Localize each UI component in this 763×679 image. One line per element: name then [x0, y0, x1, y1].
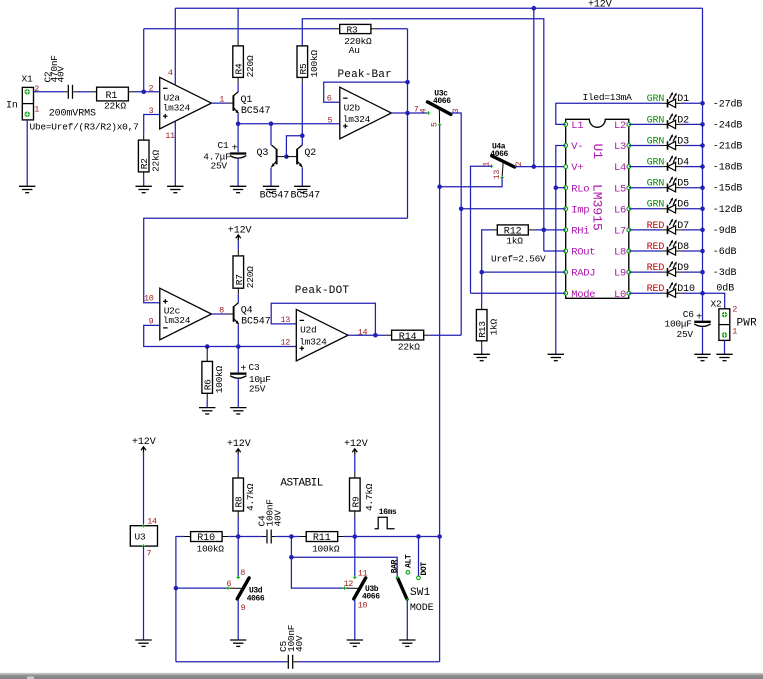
U1 left pin circles	[564, 123, 568, 296]
Q4 pin number 8	[219, 306, 224, 316]
D3 color label GRN	[647, 136, 665, 147]
scrollbar strip	[0, 673, 763, 679]
svg-text:LM3915: LM3915	[589, 184, 604, 231]
wire supply to R8	[237, 455, 239, 472]
svg-text:Iled=13mA: Iled=13mA	[583, 92, 633, 103]
svg-text:Peak-DOT: Peak-DOT	[295, 285, 350, 297]
svg-text:L5: L5	[614, 183, 626, 195]
svg-text:U1: U1	[590, 144, 605, 160]
connector X2	[711, 299, 730, 341]
wire C4 to R11	[275, 536, 300, 538]
capacitor C1 (polarized)	[218, 140, 247, 158]
svg-text:1: 1	[34, 105, 39, 115]
wire Q1 emitter down	[237, 114, 239, 124]
node D5 anode	[700, 185, 705, 190]
node Q1 emitter / C1	[236, 121, 241, 126]
U3 pin 7 pad	[142, 544, 145, 547]
svg-text:25V: 25V	[677, 329, 694, 340]
X1 pin number 2	[34, 84, 39, 94]
svg-text:lm324: lm324	[163, 102, 191, 113]
X2 pad 2	[722, 312, 727, 317]
R8 value 4.7kΩ (rotated)	[245, 483, 256, 511]
node control/U4a ctl junction	[437, 184, 442, 189]
svg-text:-6dB: -6dB	[713, 246, 737, 258]
svg-text:10: 10	[358, 601, 368, 611]
R7 value 220Ω (rotated)	[245, 266, 256, 288]
node Q2 collector / R5	[300, 133, 305, 138]
C3 value 10µF	[249, 374, 271, 385]
wire U2a pin11 to ground	[174, 121, 176, 186]
svg-text:0dB: 0dB	[716, 282, 734, 294]
IC U1 LM3915 body	[566, 119, 629, 298]
switch U3d 4066	[228, 578, 265, 604]
svg-text:RHi: RHi	[571, 226, 589, 238]
U3d pin number 9	[241, 603, 246, 613]
SW1 BAR pad	[396, 576, 399, 579]
svg-text:Ube=Uref/(R3/R2)x0,7: Ube=Uref/(R3/R2)x0,7	[30, 122, 139, 133]
svg-text:In: In	[6, 101, 18, 112]
R11 value 100kΩ	[312, 544, 340, 555]
R10 value 100kΩ	[197, 544, 225, 555]
wire supply to R7	[237, 241, 239, 250]
wire R14 to Imp column	[430, 334, 461, 336]
U3c pin number 3 (rotated)	[451, 108, 461, 113]
wire U3b pin11 from line A	[354, 537, 356, 578]
switch U4a 4066	[490, 142, 514, 177]
D9 name	[677, 263, 689, 274]
svg-text:40V: 40V	[273, 510, 284, 527]
U1 right pin circles	[627, 123, 631, 296]
capacitor C5	[285, 655, 297, 669]
svg-text:16ms: 16ms	[379, 508, 397, 517]
svg-text:lm324: lm324	[299, 337, 327, 348]
resistor R11	[300, 532, 344, 545]
svg-text:11: 11	[165, 131, 175, 141]
LED D6	[662, 197, 702, 213]
svg-text:220Ω: 220Ω	[245, 55, 256, 77]
svg-text:R8: R8	[234, 496, 245, 507]
wire C1 to ground	[237, 159, 239, 187]
wire R9 to line A	[354, 517, 356, 537]
label Iled=13mA	[583, 92, 633, 103]
wire L6 to D6	[629, 208, 663, 210]
svg-text:1: 1	[219, 95, 224, 105]
svg-text:12: 12	[281, 337, 291, 347]
ground under SW1	[399, 640, 415, 646]
svg-text:4066: 4066	[247, 595, 265, 604]
wire +12V top rail	[175, 7, 702, 9]
resistor R1	[91, 87, 135, 102]
D3 level label -21dB	[713, 141, 743, 153]
resistor R3	[334, 24, 377, 35]
C2 value labels (rotated)	[43, 55, 67, 83]
wire R8 to line A	[237, 517, 239, 537]
SW1 label ALT (rotated)	[405, 554, 414, 568]
wire D10 row to X2	[703, 293, 725, 309]
resistor R7 (vertical)	[233, 250, 245, 294]
svg-text:+: +	[232, 144, 238, 155]
wire RHi line	[534, 229, 565, 231]
wire U4a input from Mode line	[471, 166, 492, 293]
svg-text:BC547: BC547	[291, 191, 321, 202]
node junction at R1/U2a/R3	[141, 90, 146, 95]
node RLo ground junction	[554, 185, 559, 190]
label Ube=Uref/(R3/R2)x0,7	[30, 122, 139, 133]
resistor R13 (vertical)	[476, 303, 488, 346]
transistor Q1	[227, 92, 270, 117]
svg-text:100kΩ: 100kΩ	[197, 544, 225, 555]
svg-text:PWR: PWR	[737, 317, 758, 329]
svg-text:2: 2	[149, 83, 154, 93]
svg-text:13: 13	[281, 315, 291, 325]
node D10 anode	[700, 291, 705, 296]
wire supply to U3 pin14	[143, 453, 145, 526]
U2d pin number 14	[358, 327, 368, 337]
svg-text:D10: D10	[677, 284, 695, 295]
resistor R2 (vertical)	[138, 134, 150, 178]
svg-text:BAR: BAR	[390, 559, 399, 573]
R5 value 100kΩ (rotated)	[309, 50, 320, 78]
U3c pin number 4 (rotated)	[418, 108, 428, 113]
svg-text:-18dB: -18dB	[713, 162, 743, 174]
svg-text:D7: D7	[677, 221, 689, 232]
wire U4a output to V+	[515, 166, 566, 168]
resistor R10	[185, 532, 229, 545]
svg-text:GRN: GRN	[647, 158, 665, 169]
svg-text:40V: 40V	[56, 66, 67, 83]
svg-text:-21dB: -21dB	[713, 141, 743, 153]
svg-text:25V: 25V	[249, 383, 266, 394]
wire C1 top	[237, 124, 239, 153]
supply arrow R7	[236, 235, 241, 241]
label Uref=2.56V	[491, 254, 546, 265]
transistor Q3 (mirrored)	[257, 145, 287, 167]
U1 pin name ROut	[571, 247, 595, 259]
svg-text:+12V: +12V	[227, 439, 251, 450]
svg-text:2: 2	[732, 304, 737, 314]
wire R5 down to Q2 collector	[301, 83, 303, 145]
D1 name	[677, 94, 689, 105]
label 16ms pulse	[379, 508, 397, 517]
C6 value 100µF	[665, 319, 693, 330]
Q1 pin number 1	[219, 95, 224, 105]
node RADJ junction	[479, 270, 484, 275]
U2a pin number 2	[149, 83, 154, 93]
C5 value labels (rotated)	[278, 624, 305, 652]
wire L8 to D8	[629, 250, 663, 252]
D8 name	[677, 242, 689, 253]
svg-text:12: 12	[344, 579, 354, 589]
op-amp U2a	[160, 77, 212, 129]
svg-text:SW1: SW1	[410, 587, 431, 599]
U1 pin name L8	[614, 247, 626, 259]
svg-text:D9: D9	[677, 263, 689, 274]
svg-text:RADJ: RADJ	[571, 268, 595, 280]
LED D5	[662, 176, 702, 192]
svg-text:L1: L1	[571, 120, 583, 132]
wire LED anode rail	[702, 8, 704, 293]
U3c control pad	[438, 123, 441, 126]
op-amp U2b	[340, 87, 392, 139]
node C4/R11/U3b junction	[289, 534, 294, 539]
svg-text:5: 5	[328, 116, 333, 126]
D6 level label -12dB	[713, 204, 743, 216]
svg-text:RED: RED	[647, 221, 665, 232]
R14 value 22kΩ	[398, 341, 420, 352]
svg-text:ASTABIL: ASTABIL	[280, 478, 322, 490]
LED D7	[662, 219, 702, 235]
svg-text:Uref=2.56V: Uref=2.56V	[491, 254, 546, 265]
wire feedback vertical to R3 line	[143, 29, 145, 92]
U1 pin name L7	[614, 226, 626, 238]
R12 value 1kΩ	[506, 236, 523, 247]
wire R3 left line	[144, 28, 334, 30]
D2 name	[677, 115, 689, 126]
node Q3/Q2 base tie	[284, 154, 289, 159]
U1 pin name L0	[614, 289, 626, 301]
ground under X2	[716, 354, 732, 360]
wire Q1 collector to R4	[237, 83, 239, 92]
ground under Q2	[294, 186, 310, 192]
svg-text:Q4: Q4	[241, 306, 253, 317]
SW1 label BAR (rotated)	[390, 559, 399, 573]
ground under Q3	[263, 186, 279, 192]
svg-text:D1: D1	[677, 94, 689, 105]
U1 pin name Imp	[571, 204, 589, 216]
svg-text:8: 8	[240, 568, 245, 578]
ground under X1	[19, 186, 35, 192]
supply arrow R8	[236, 449, 241, 455]
U1 pin name RADJ	[571, 268, 595, 280]
wire DOT pad drop	[418, 537, 420, 577]
wire L5 to D5	[629, 187, 663, 189]
wire Imp line	[461, 208, 566, 210]
svg-text:BC547: BC547	[241, 316, 271, 327]
node U3b pin12 line	[289, 555, 294, 560]
svg-text:22kΩ: 22kΩ	[398, 341, 420, 352]
R1 value 22kΩ	[104, 101, 126, 112]
R4 value 220Ω (rotated)	[245, 55, 256, 77]
svg-text:Mode: Mode	[571, 289, 595, 301]
svg-text:8: 8	[219, 306, 224, 316]
D2 color label GRN	[647, 115, 665, 126]
U4a pin number 1 (rotated)	[481, 162, 491, 167]
U2c pin number 10	[144, 293, 154, 303]
wire U2b pin6 feedback loop	[324, 82, 408, 102]
svg-text:4: 4	[418, 108, 428, 113]
D10 level label 0dB	[716, 282, 734, 294]
U4a input pad	[490, 165, 493, 168]
D9 level label -3dB	[713, 267, 737, 279]
svg-text:U2b: U2b	[344, 102, 361, 113]
svg-text:2: 2	[34, 84, 39, 94]
R3 note Au	[349, 45, 360, 56]
wire bottom rail left	[176, 661, 285, 663]
U3b control pad	[343, 586, 346, 589]
wire U2b output vertical	[407, 29, 409, 219]
wire bottom rail right	[297, 661, 440, 663]
svg-text:13: 13	[492, 170, 502, 180]
svg-text:9: 9	[241, 603, 246, 613]
wire R10 to C4	[228, 536, 263, 538]
svg-text:L6: L6	[614, 204, 626, 216]
wire U3c control line down	[439, 125, 441, 662]
svg-text:7: 7	[147, 549, 152, 559]
wire SW1 common to ground	[406, 600, 408, 640]
D7 color label RED	[647, 221, 665, 232]
node D6 anode	[700, 207, 705, 212]
wire L4 to D4	[629, 166, 663, 168]
D6 name	[677, 200, 689, 211]
SW1 DOT pad (open)	[417, 576, 421, 580]
wire base tie to Q2 collector	[286, 136, 302, 157]
svg-text:Q1: Q1	[241, 95, 253, 106]
label Peak-Bar	[338, 69, 392, 81]
resistor R5 (vertical)	[297, 46, 309, 84]
U3b pin number 11	[358, 568, 368, 578]
U2b pin number 5	[328, 116, 333, 126]
LED D3	[662, 134, 702, 150]
capacitor C6 (polarized)	[683, 293, 711, 354]
svg-text:100μF: 100μF	[665, 319, 693, 330]
D6 color label GRN	[647, 200, 665, 211]
U3d pin number 6	[227, 579, 232, 589]
ground under R13	[474, 354, 490, 360]
wire L7 to D7	[629, 229, 663, 231]
svg-text:BC547: BC547	[260, 191, 290, 202]
svg-text:GRN: GRN	[647, 94, 665, 105]
wire +12V drop to V+	[533, 8, 535, 166]
svg-text:22kΩ: 22kΩ	[151, 150, 162, 172]
U2a pin number 11	[165, 131, 175, 141]
C6 value 25V	[677, 329, 694, 340]
wire L2 to D2	[629, 123, 663, 125]
svg-text:RED: RED	[647, 242, 665, 253]
wire X1 pad2 to C2	[34, 91, 65, 93]
C4 value labels (rotated)	[257, 499, 284, 527]
svg-text:40V: 40V	[294, 635, 305, 652]
U2a pin number 4	[168, 68, 173, 78]
wire L3 to D3	[629, 145, 663, 147]
wire R11 to control column	[344, 536, 440, 538]
wire X2 pad1 to ground	[724, 340, 726, 354]
U1 pin name L1	[571, 120, 583, 132]
wire U2b output	[391, 112, 427, 114]
U3 pin 14 pad	[142, 524, 145, 527]
U2b pin number 7	[414, 104, 419, 114]
wire U3b pin12 branch	[291, 537, 344, 589]
wire U2d output	[348, 334, 386, 336]
U3c input pad	[427, 111, 430, 114]
U1 pin name RLo	[571, 183, 589, 195]
wire Q4 collector to R7	[237, 294, 239, 303]
X1 pad 2	[25, 89, 30, 94]
svg-text:+12V: +12V	[344, 439, 368, 450]
svg-text:D5: D5	[677, 179, 689, 190]
resistor R6 (vertical)	[202, 347, 214, 400]
svg-text:Imp: Imp	[571, 204, 589, 216]
wire Q3 emitter to ground	[270, 168, 272, 187]
svg-text:X2: X2	[711, 299, 722, 310]
svg-text:ROut: ROut	[571, 247, 595, 259]
wire U3c output down to Imp/R14	[451, 113, 461, 335]
wire BAR select line	[291, 557, 397, 577]
D7 level label -9dB	[713, 225, 737, 237]
node Q3 collector	[269, 121, 274, 126]
svg-text:4.7kΩ: 4.7kΩ	[364, 483, 375, 511]
U1 pin name V-	[571, 141, 583, 153]
D5 level label -15dB	[713, 183, 743, 195]
node feedback/output column upper	[405, 80, 410, 85]
node D3 anode	[700, 143, 705, 148]
U3d top pad	[237, 576, 240, 579]
svg-text:L2: L2	[614, 120, 626, 132]
wire Mode line	[471, 292, 566, 294]
LED D2	[662, 113, 702, 129]
LED D1	[662, 92, 702, 108]
LED D9	[662, 261, 702, 277]
svg-text:D8: D8	[677, 242, 689, 253]
SW1 label DOT (rotated)	[420, 562, 429, 576]
svg-text:BC547: BC547	[241, 106, 271, 117]
C1 value 4.7µF	[203, 151, 231, 162]
svg-text:D6: D6	[677, 200, 689, 211]
transistor Q2	[286, 145, 316, 167]
svg-text:R2: R2	[139, 158, 150, 169]
wire R4 top to rail	[237, 8, 239, 40]
D1 color label GRN	[647, 94, 665, 105]
Q3 label BC547	[260, 191, 290, 202]
ground under U3d	[230, 640, 246, 646]
wire U3b pin10 to ground	[354, 600, 356, 640]
U1 pin name L3	[614, 141, 626, 153]
U1 pin name V+	[571, 162, 583, 174]
ground under U3	[135, 640, 151, 646]
U1 pin name L4	[614, 162, 626, 174]
connector X1	[22, 74, 34, 120]
svg-text:V-: V-	[571, 141, 583, 153]
X2 pad 1	[722, 332, 727, 337]
SW1 common pad	[406, 598, 409, 601]
svg-text:25V: 25V	[211, 160, 228, 171]
svg-text:5: 5	[429, 122, 439, 127]
node DOT pad branch	[416, 534, 421, 539]
wire C2 to R1	[77, 91, 91, 93]
U3 pin number 7	[147, 549, 152, 559]
supply arrow U3	[141, 447, 146, 453]
supply arrow R9	[352, 449, 357, 455]
X2 pin number 1	[732, 327, 737, 337]
svg-text:RED: RED	[647, 284, 665, 295]
svg-text:GRN: GRN	[647, 115, 665, 126]
svg-text:6: 6	[327, 93, 332, 103]
wire U2a pin3	[144, 115, 160, 135]
U4a control pad	[500, 176, 503, 179]
wire U4a control to bus	[440, 178, 503, 187]
svg-text:ALT: ALT	[405, 554, 414, 568]
U3b pin number 12	[344, 579, 354, 589]
svg-text:L7: L7	[614, 226, 626, 238]
svg-text:-12dB: -12dB	[713, 204, 743, 216]
svg-text:1kΩ: 1kΩ	[489, 318, 500, 335]
R3 value 220kΩ	[344, 36, 372, 47]
wire R13 to ground	[481, 347, 483, 355]
wire U3 pin7 to ground	[143, 546, 145, 640]
svg-text:11: 11	[358, 568, 368, 578]
svg-text:-9dB: -9dB	[713, 225, 737, 237]
svg-text:L4: L4	[614, 162, 626, 174]
svg-text:22kΩ: 22kΩ	[104, 101, 126, 112]
